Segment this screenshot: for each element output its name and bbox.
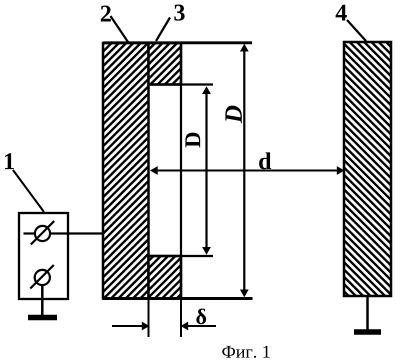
leader line 1	[13, 170, 44, 212]
ground of box 1	[28, 315, 57, 321]
dimension D inner line	[202, 86, 211, 254]
ground of electrode 4	[354, 296, 381, 332]
top edge extension line	[103, 41, 252, 44]
delta extension line left	[148, 300, 150, 337]
electrode 4 (hatched plate)	[344, 42, 391, 296]
label delta	[196, 309, 206, 325]
spacer 3 bottom hatched section	[149, 256, 182, 299]
leader line 3	[156, 18, 170, 42]
wire to ground of box 1	[41, 285, 44, 318]
label d	[259, 152, 271, 169]
bottom edge extension line	[103, 297, 253, 300]
caption	[222, 346, 269, 358]
label 3	[174, 5, 184, 21]
window top extension line	[149, 83, 214, 85]
source box 1	[19, 213, 68, 299]
window bottom extension line	[149, 255, 214, 257]
dimension delta arrows	[112, 322, 216, 331]
leader line 2	[111, 16, 129, 42]
label D inner	[185, 133, 200, 148]
wire box1 to electrode 2	[50, 232, 104, 234]
source symbol bottom (crossed circle)	[30, 265, 54, 289]
label 1	[5, 153, 14, 169]
dimension D outer line	[240, 44, 249, 297]
source symbol top (crossed circle)	[24, 221, 55, 245]
leader line 4	[347, 20, 366, 41]
spacer 3 top hatched section	[149, 43, 182, 85]
dimension d line	[150, 166, 345, 175]
delta extension line right	[180, 300, 182, 337]
label 2	[101, 6, 111, 22]
label 4	[336, 5, 347, 21]
spacer 3 right edge line	[180, 43, 182, 299]
label D outer (italic)	[225, 106, 241, 124]
electrode 2 (hatched plate)	[103, 43, 149, 299]
